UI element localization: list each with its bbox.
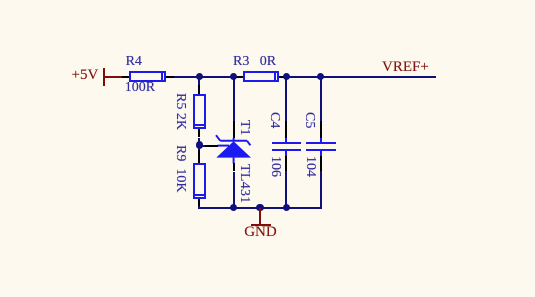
resistor R4 inner bar	[161, 73, 163, 80]
transistor T1 symbol: cathode bar	[220, 140, 247, 142]
transistor T1 symbol: bar right hook	[247, 141, 250, 146]
label R4	[126, 55, 142, 69]
wire R5 branch upper (navy)	[198, 77, 200, 85]
node junction bottom T1	[230, 204, 238, 212]
capacitor C4 pin top	[285, 121, 287, 138]
transistor T1 (TL431 shunt reference symbol)	[210, 130, 256, 166]
wire T1 anode to bottom rail	[233, 172, 235, 209]
transistor T1 symbol: anode stub	[233, 158, 235, 164]
node junction top C4	[283, 73, 290, 80]
label R9 10K	[173, 145, 187, 192]
capacitor C4 plate bottom	[272, 149, 302, 151]
resistor R3 body	[243, 71, 280, 82]
capacitor C5 plate bottom	[306, 149, 336, 151]
label T1	[237, 120, 251, 136]
resistor R9 pin top	[198, 150, 200, 163]
port +5V tick	[103, 68, 105, 87]
resistor R5 inner bar	[195, 124, 204, 126]
wire bottom rail	[198, 207, 321, 209]
wire R9 to bottom rail	[198, 206, 200, 209]
transistor T1 symbol: triangle	[216, 141, 251, 157]
resistor R3 pin left	[234, 76, 243, 78]
wire C4 lower (navy)	[285, 171, 287, 209]
node junction bottom GND	[256, 204, 264, 212]
wire R5 to node (navy)	[198, 138, 200, 151]
resistor R9 pin bottom	[198, 199, 200, 206]
ground stem	[259, 208, 261, 225]
port +5V label	[72, 68, 99, 83]
label 104	[303, 156, 317, 177]
capacitor C5 pin top	[320, 121, 322, 138]
transistor T1 symbol: ref stub	[218, 145, 230, 147]
node junction top R5	[196, 73, 203, 80]
label 106	[268, 156, 282, 177]
resistor R9 body	[193, 163, 206, 199]
resistor R3 inner bar	[274, 73, 276, 80]
wire C5 upper (navy)	[320, 77, 322, 121]
resistor R9 inner bar	[195, 194, 204, 196]
capacitor C4 stub bottom	[285, 151, 287, 156]
transistor T1 symbol: bar left hook	[216, 135, 220, 141]
capacitor C4 pin bottom	[285, 156, 287, 171]
transistor T1 pin ref	[205, 145, 218, 147]
capacitor C4 plate top	[272, 142, 302, 144]
wire T1 cathode upper (navy)	[233, 77, 235, 121]
resistor R3 pin right	[279, 76, 288, 78]
net label VREF+	[382, 60, 429, 75]
node junction R5-R9	[196, 141, 203, 148]
resistor R4 pin left	[122, 76, 130, 78]
ground label GND	[244, 225, 277, 240]
capacitor C5 stub top	[320, 138, 322, 143]
capacitor C5 plate top	[306, 142, 336, 144]
label TL431	[237, 164, 251, 204]
label R5 2K	[173, 93, 187, 130]
wire C5 lower (navy)	[320, 171, 322, 209]
ground bar	[251, 224, 271, 226]
capacitor C5 pin bottom	[320, 156, 322, 171]
node junction bottom C4	[283, 204, 291, 212]
resistor R5 body	[193, 94, 206, 129]
label C4	[267, 112, 281, 128]
wire top rail	[174, 76, 436, 78]
wire node to T1 ref (navy)	[200, 145, 205, 147]
label R3	[233, 55, 249, 69]
capacitor C4 stub top	[285, 138, 287, 143]
label C5	[302, 112, 316, 128]
resistor R5 pin bottom	[198, 129, 200, 138]
label 0R	[260, 55, 276, 69]
transistor T1 pin cathode	[233, 121, 235, 138]
capacitor C5 stub bottom	[320, 151, 322, 156]
node junction top T1	[230, 73, 237, 80]
resistor R5 pin top	[198, 85, 200, 94]
transistor T1 pin anode	[233, 163, 235, 171]
node junction top C5	[317, 73, 324, 80]
resistor R4 pin right	[166, 76, 174, 78]
label 100R	[125, 81, 155, 95]
wire C4 upper (navy)	[285, 77, 287, 121]
transistor T1 symbol: cathode stub	[233, 138, 235, 142]
wire port to R4 (maroon)	[103, 76, 123, 78]
resistor R4 body	[129, 71, 166, 82]
